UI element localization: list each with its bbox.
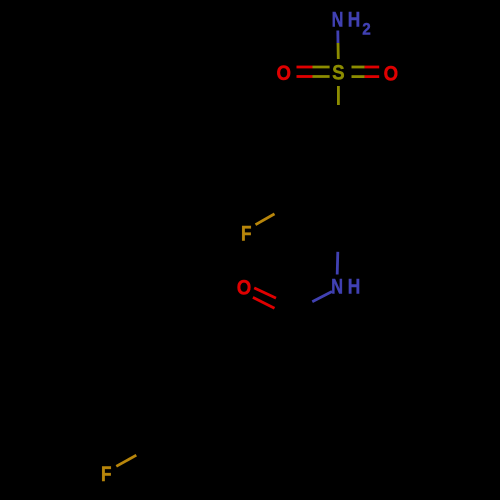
ring benzene 2 carbon bonds (invisible on black) [157, 366, 247, 469]
wire: bond C5-F1 fluorine half [256, 214, 275, 225]
svg-text:H: H [348, 276, 361, 299]
wire: double bond S=O2 line2 sulfur half [352, 75, 365, 78]
wire: double bond S=O2 line1 sulfur half [352, 66, 365, 69]
svg-text:O: O [237, 275, 252, 299]
svg-text:O: O [384, 61, 399, 85]
wire: double bond S=O1 line1 red half [297, 66, 313, 69]
wire: bond C7-C8 (invisible) [291, 312, 294, 366]
svg-text:S: S [332, 62, 345, 85]
wire: double bond S=O1 line1 sulfur half [313, 66, 330, 69]
wire: bond C4-N2 blue half [336, 252, 339, 275]
wire: double bond C7=O3 line1 carbon half (invisible) [277, 298, 295, 308]
wire: bond C12-F2 carbon half (invisible) [136, 444, 156, 455]
wire: double bond S=O2 line2 red half [365, 75, 380, 78]
wire: bond N1-S, sulfur half [337, 43, 340, 59]
svg-text:F: F [101, 463, 112, 486]
wire: double bond S=O1 line2 red half [297, 75, 313, 78]
wire: bond C4-N2 carbon half (invisible) [336, 229, 339, 252]
wire: bond C12-F2 fluorine half [116, 455, 136, 466]
wire: bond S-C1 carbon half (invisible) [337, 105, 340, 126]
wire: bond C8-C9 (invisible) [246, 366, 292, 393]
wire: bond N2-C7 carbon half (invisible) [292, 302, 312, 312]
svg-text:H: H [348, 8, 361, 31]
svg-text:N: N [331, 276, 343, 299]
wire: double bond C7=O3 line2 carbon half (invisible) [272, 307, 290, 317]
svg-text:2: 2 [362, 20, 371, 39]
svg-text:O: O [277, 61, 292, 85]
wire: bond S-C1 sulfur half [337, 86, 340, 105]
wire: double bond S=O1 line2 sulfur half [313, 75, 330, 78]
wire: double bond S=O2 line1 red half [365, 66, 380, 69]
wire: bond N1-S, blue half [336, 31, 339, 44]
svg-text:N: N [332, 8, 344, 31]
wire: double bond C7=O3 line1 red half [254, 288, 276, 298]
ring benzene 1 carbon bonds (invisible on black) [294, 126, 384, 229]
svg-text:F: F [241, 223, 252, 246]
wire: bond C5-F1 carbon half (invisible) [275, 203, 294, 214]
wire: double bond C7=O3 line2 red half [253, 297, 275, 308]
wire: bond N2-C7 blue half [312, 292, 332, 302]
